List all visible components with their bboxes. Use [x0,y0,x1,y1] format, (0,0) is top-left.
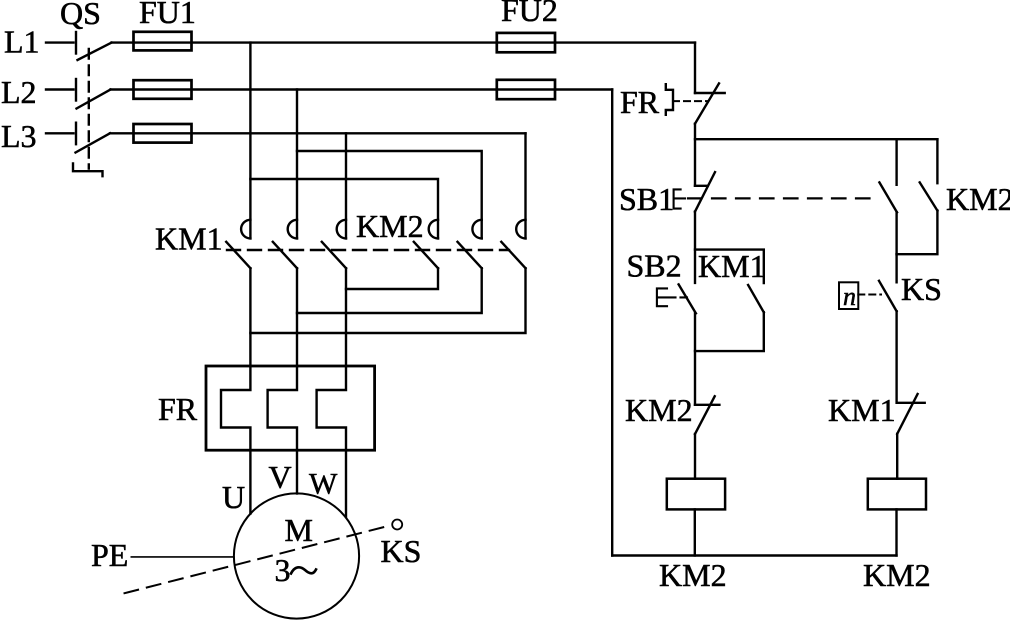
switch QS pole 2 fixed contact [75,79,77,101]
wire KM2 output 1 to W [346,268,438,289]
wire KM2 feed 3 (from L3) [524,133,526,238]
motor M circle [234,493,359,618]
wire right pair: SB1 NO branch [895,139,897,185]
pushbutton SB1 NC contact [695,172,715,212]
svg-text:3: 3 [275,552,291,588]
svg-text:PE: PE [91,537,128,573]
wire L2 lead-in [46,88,74,90]
coil KM1 (left) [667,479,725,510]
wire U to motor [249,450,251,513]
speed switch KS n-box [839,282,858,309]
pushbutton SB2 NO contact blade [679,284,696,313]
wire L3 lead-in [46,132,74,134]
wire control branch top (L1 down) [694,43,696,93]
speed sensor KS pickup circle [392,520,402,530]
thermal relay FR actuator symbol [666,84,673,115]
switch QS pole 1 blade [78,43,112,60]
fuse FU1 pole 1 [134,32,192,51]
wire L1 to fuses [112,41,696,43]
svg-text:U: U [222,479,245,515]
wire right pair: KM2 seal branch [936,139,938,183]
speed sensor KS coupling (dashed shaft line) [125,526,391,594]
svg-text:FU1: FU1 [139,0,196,30]
wire L1 lead-in [46,41,74,43]
svg-text:L3: L3 [1,118,37,154]
pushbutton SB1 NO plugging contact blade [879,182,897,212]
contactor KM1 main contact 1 [226,220,250,268]
svg-text:M: M [285,512,313,548]
svg-text:KM2: KM2 [356,208,424,244]
wire coil right to bottom rail [895,509,897,555]
wire KM1 NC to coil KM2 [896,434,898,479]
thermal relay FR heater 2 [268,366,297,450]
contactor KM1 NC interlock contact [897,394,925,434]
wire W below KM1 contact 3 [345,268,347,366]
fuse FU2 pole 2 [497,80,555,99]
motor phase tilde [291,567,316,573]
svg-text:SB1: SB1 [619,181,674,217]
contactor KM2 main contact 2 [458,220,482,268]
thermal relay FR actuator dashed link [673,100,707,102]
wire L2 to fuses [111,88,613,90]
svg-text:KM1: KM1 [828,392,896,428]
thermal relay FR box [206,366,375,450]
svg-text:QS: QS [60,0,101,31]
contactor KM2 main contact 1 [414,220,438,268]
wire left control rail [611,90,613,556]
wire SB1 to branch point [694,212,696,283]
thermal relay FR heater 1 [221,366,250,450]
wire W phase vertical from L3 [345,133,347,238]
wire W to motor [345,450,347,516]
dashed link SB1 to plugging contact [688,197,879,199]
wire U phase vertical from L1 [249,43,251,239]
svg-text:n: n [843,282,856,311]
contactor KM2 seal NO contact blade [920,182,938,210]
wire KM2 NC to coil KM1 [694,434,696,479]
svg-text:FR: FR [620,84,660,120]
contactor KM1 main contact 3 [322,220,346,268]
dashed link KM1-KM2 main contacts [227,249,509,251]
wire seal branch bottom [695,312,764,351]
wire KM2 feed 1 (from L1 branch) [250,179,438,238]
wire to KS contact [895,254,897,282]
svg-text:KM2: KM2 [625,392,693,428]
contactor KM2 NC interlock contact [695,396,719,434]
svg-text:L2: L2 [1,74,37,110]
svg-text:KM1: KM1 [698,248,766,284]
wire V phase vertical from L2 [296,90,298,239]
wire below KM2 seal [897,211,938,255]
svg-text:FU2: FU2 [501,0,558,28]
wire coil left to bottom rail [694,509,696,555]
svg-text:KS: KS [901,271,942,307]
wire V below KM1 contact 2 [296,268,298,366]
thermal relay FR heater 3 [317,366,346,450]
wire branch to right contacts [695,138,937,140]
switch QS mechanical link (dashed) [88,49,90,169]
wire seal branch top [695,250,764,283]
wire PE to motor frame [131,556,234,558]
switch QS pole 3 blade [76,133,111,152]
svg-text:KM2: KM2 [863,557,931,593]
speed switch KS NO contact blade [879,281,897,311]
wire FR to SB1 [694,124,696,186]
coil KM2 (right) [868,479,926,510]
pushbutton SB2 actuator dashed link [669,296,687,298]
svg-text:KS: KS [381,533,422,569]
thermal relay FR NC contact [695,83,725,123]
switch QS pole 1 fixed contact [75,32,77,54]
wire bottom control rail [612,554,896,556]
wire L3 to corner [110,132,526,134]
wire KM2 output 3 to U [250,268,525,333]
fuse FU1 pole 3 [134,124,192,143]
pushbutton SB1 actuator E [674,189,685,208]
wire below SB1 NO [895,212,897,254]
wire SB2 to KM2 NC [694,313,696,405]
switch QS pole 2 blade [77,90,111,109]
contactor KM1 seal NO contact blade [748,285,764,312]
svg-text:KM2: KM2 [946,181,1010,217]
svg-text:SB2: SB2 [627,248,682,284]
fuse FU2 pole 1 [497,33,555,52]
speed switch dashed link [858,294,881,296]
svg-text:KM1: KM1 [155,221,223,257]
wire U below KM1 contact 1 [249,268,251,366]
svg-text:FR: FR [158,391,198,427]
svg-text:V: V [269,459,292,495]
pushbutton SB2 actuator E [657,288,667,306]
wire V to motor [296,450,298,493]
contactor KM2 main contact 3 [501,220,525,268]
fuse FU1 pole 2 [134,80,192,99]
wire KM2 output 2 to V [297,268,482,313]
svg-text:L1: L1 [4,24,40,60]
contactor KM1 main contact 2 [273,220,297,268]
wire KS to KM1 NC [895,311,897,403]
switch QS handle bar [73,164,103,177]
switch QS pole 3 fixed contact [75,123,77,145]
svg-text:KM2: KM2 [659,557,727,593]
wire KM2 feed 2 (from L2 branch) [297,151,482,238]
